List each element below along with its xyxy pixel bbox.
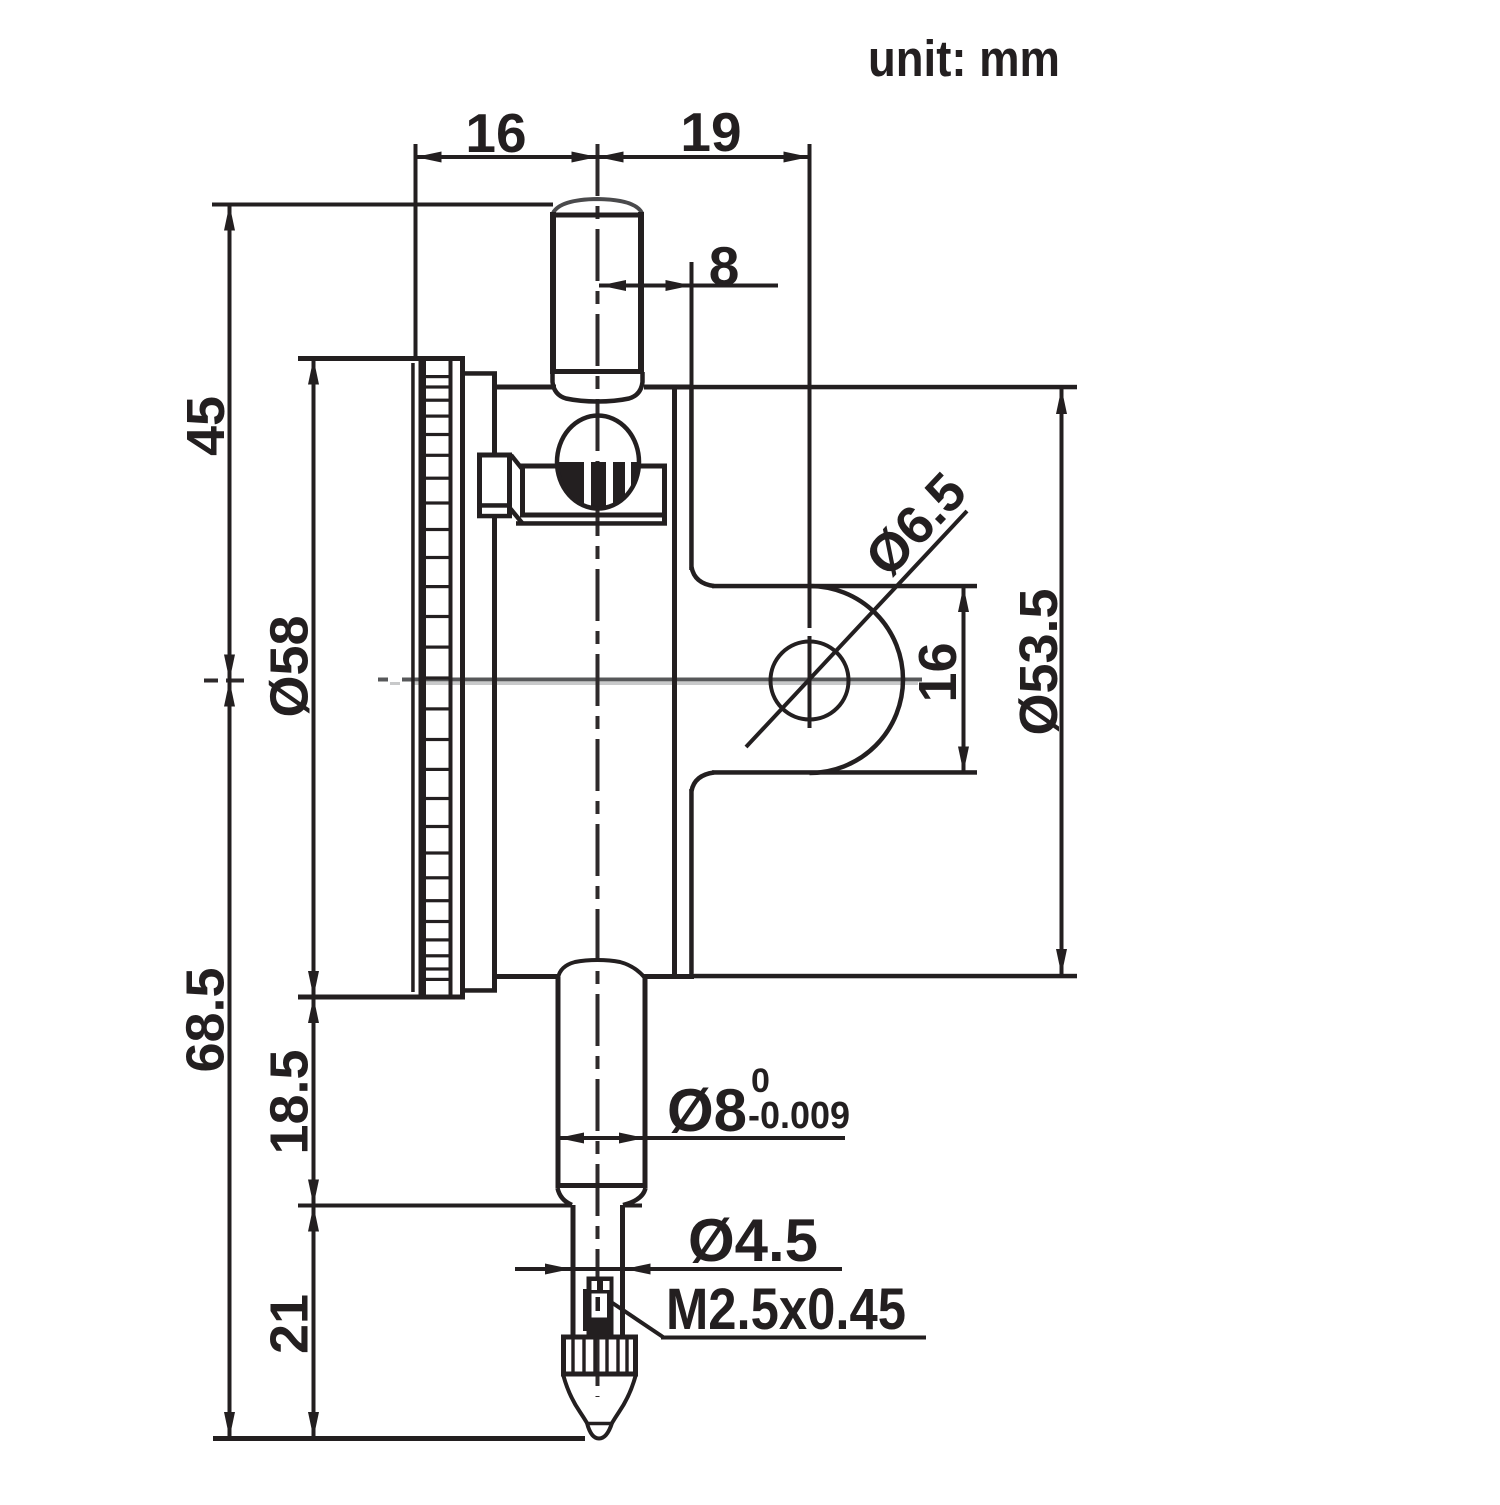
contact holder knurled nut [561,1335,566,1376]
plunger top dome [558,960,645,978]
lug hole vertical centerline / dim19 extension [808,144,812,728]
bezel knurl ticks [425,375,449,378]
clamp ear chamfer bottom [509,507,523,524]
top stem lower dome [553,372,643,402]
svg-text:Ø4.5: Ø4.5 [688,1207,818,1274]
dim 53.5 dimension line [1060,387,1064,975]
bezel top edge + dim58 top extension [298,356,465,361]
baseline extension (bottom) [213,1436,585,1441]
crystal ring bottom edge [461,988,497,993]
clamp plate [520,464,667,469]
bezel knurl hatch right line [449,358,453,996]
lug dim 16 dimension line [962,586,966,772]
lug stem / bracket front line [689,386,694,570]
contact holder knurl lines [571,1339,574,1372]
lug bottom edge (also dim16 extension) [712,770,977,775]
horizontal centerline mark at left dim line [204,679,252,683]
clamp knob knurled lower half [557,462,639,509]
bezel back edge [460,356,465,998]
dim 6.5 leader line [746,511,967,747]
dim 16/19 dimension line [415,155,810,159]
lug bottom fillet [692,773,715,792]
svg-text:45: 45 [176,396,236,456]
svg-text:21: 21 [260,1294,320,1354]
svg-text:-0.009: -0.009 [748,1095,850,1137]
case bottom edge right [644,974,694,979]
dim 18.5/21 divider extension line [298,1204,571,1208]
svg-text:16: 16 [465,102,526,164]
lower stem (4.5mm) [571,1205,576,1337]
lug top edge (also dim16 extension) [712,584,977,589]
top stem cap arc [553,199,642,213]
lug rounded end arc [810,586,904,773]
horizontal centerline [378,678,922,682]
lug hole [771,642,849,720]
dim 53.5 top extension [692,385,1077,390]
lug top fillet [692,567,715,586]
case front edge lower [492,516,497,991]
bezel bottom edge + dim58 bottom extension [298,995,465,1000]
contact point cone [564,1376,588,1423]
case top edge right [644,385,692,390]
contact point rounded tip [587,1423,612,1439]
svg-text:unit: mm: unit: mm [868,30,1060,87]
case back edge [672,387,677,976]
plunger taper shoulder [558,1188,573,1205]
clamp ear [477,453,482,516]
plunger body [556,977,561,1186]
dim 8 dimension line [599,284,778,288]
dim diameter4.5 dimension line [515,1267,842,1271]
crystal ring top edge [461,371,497,376]
case top edge left [492,385,556,390]
M2.5x0.45 leader [611,1302,663,1337]
svg-text:Ø58: Ø58 [260,615,320,717]
clamp ear chamfer top [511,455,523,470]
bezel outer edge [419,356,424,998]
case front edge upper [492,373,497,453]
dim 53.5 bottom extension [694,974,1077,979]
vertical centerline of stem [596,144,600,1397]
svg-text:8: 8 [709,235,740,297]
svg-text:16: 16 [908,642,968,702]
top stem body [550,212,556,374]
dim 8 extension line [690,262,694,387]
svg-text:Ø53.5: Ø53.5 [1009,588,1069,735]
dim 45/68.5 dimension line [228,204,232,1438]
case bottom edge left [492,974,559,979]
svg-text:Ø8: Ø8 [667,1077,747,1144]
M2.5x0.45 underline [661,1336,926,1340]
svg-text:18.5: 18.5 [260,1049,320,1154]
dim 16 extension line left [414,144,418,356]
bezel knurl hatch left line [423,358,426,996]
svg-text:68.5: 68.5 [176,967,236,1072]
clamp knob outline [557,416,639,509]
svg-text:19: 19 [680,101,741,163]
svg-text:M2.5x0.45: M2.5x0.45 [666,1277,906,1342]
dim 45 top extension line [212,203,553,207]
dim 58/18.5/21 dimension line [312,358,316,1438]
bezel front thin lip [411,363,415,992]
dim diameter8 dimension line [556,1136,845,1140]
contact thread stub [587,1277,614,1336]
